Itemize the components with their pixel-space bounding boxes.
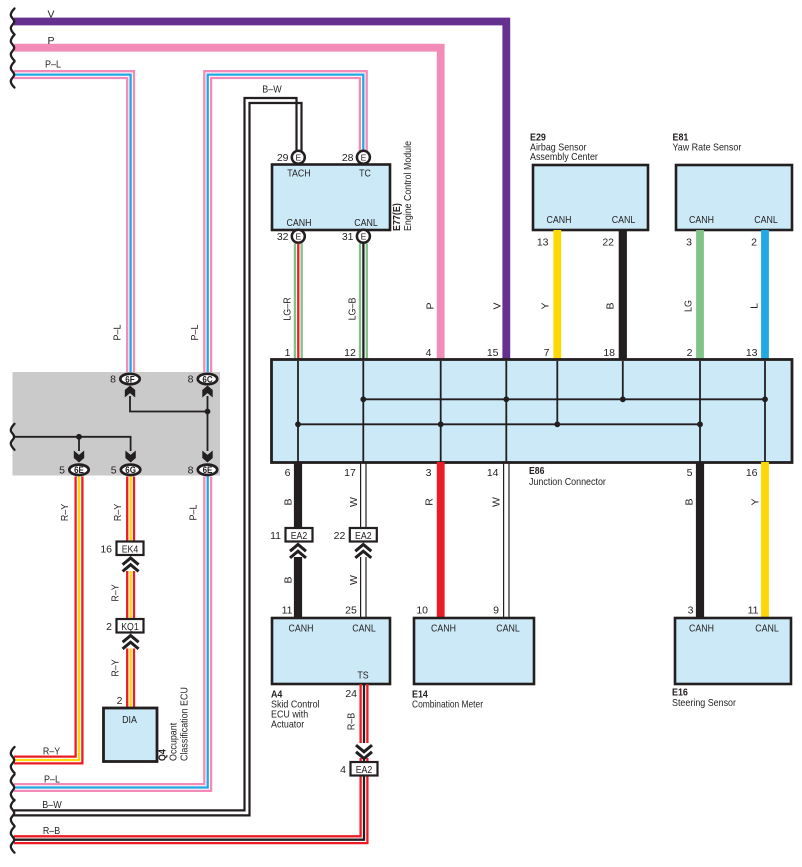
svg-text:6E: 6E	[74, 465, 84, 475]
junction connector E86	[272, 360, 793, 463]
svg-text:2: 2	[751, 237, 757, 249]
wire LG-B (E77 pin 31 to E86 pin 12)	[360, 244, 367, 362]
svg-text:R–Y: R–Y	[110, 659, 122, 676]
svg-text:22: 22	[602, 237, 614, 249]
connector EK4 pin 16	[123, 558, 139, 571]
wire P-L (from 6C up and over to E77 pin 28)	[204, 71, 366, 373]
terminal E77 pin 32	[292, 230, 305, 243]
connector EA2 pin 4	[356, 745, 372, 758]
svg-text:R–B: R–B	[346, 713, 358, 730]
svg-text:2: 2	[687, 347, 693, 359]
wire Y (E86 pin 16 to E16 CANL)	[761, 462, 769, 618]
wire R-Y (6E pin 5 to bottom-left)	[14, 477, 82, 764]
wire R-Y (6G to DIA via EK4 and KQ1)	[127, 477, 134, 709]
svg-text:B: B	[283, 498, 295, 505]
svg-text:16: 16	[746, 467, 758, 479]
connector 6G pin 5	[121, 465, 140, 475]
svg-text:R–Y: R–Y	[43, 746, 60, 758]
svg-text:9: 9	[493, 605, 499, 617]
svg-text:R–Y: R–Y	[59, 504, 71, 521]
svg-text:P–L: P–L	[189, 324, 201, 340]
shielded harness (gray area)	[13, 372, 221, 476]
svg-text:CANH: CANH	[689, 624, 714, 635]
svg-text:8: 8	[188, 374, 194, 386]
connector 6E pin 8	[198, 465, 217, 475]
wire L (E81 CANL to E86 pin 13)	[761, 230, 769, 361]
svg-text:B: B	[684, 498, 696, 505]
svg-text:6: 6	[285, 467, 291, 479]
ECU A4 Skid Control ECU with Actuator	[272, 618, 390, 684]
svg-text:CANL: CANL	[754, 215, 778, 226]
svg-text:5: 5	[687, 467, 693, 479]
svg-text:P–L: P–L	[188, 504, 200, 520]
wire P-L (left, to shield connector 6F)	[14, 71, 134, 373]
svg-text:R–B: R–B	[43, 825, 60, 837]
ECU E77 Engine Control Module	[272, 165, 390, 231]
svg-text:5: 5	[111, 464, 117, 476]
svg-text:P–L: P–L	[45, 58, 61, 70]
wire R-B continuation bracket	[11, 827, 15, 853]
svg-text:11: 11	[282, 605, 293, 617]
svg-text:12: 12	[344, 347, 356, 359]
svg-text:B: B	[283, 576, 295, 583]
svg-text:LG: LG	[683, 300, 695, 312]
svg-text:6F: 6F	[125, 374, 135, 384]
svg-text:CANH: CANH	[431, 624, 456, 635]
svg-text:LG–R: LG–R	[282, 297, 294, 321]
wire LG (E81 CANH to E86 pin 2)	[696, 230, 704, 361]
svg-text:10: 10	[416, 605, 428, 617]
svg-text:CANL: CANL	[755, 624, 779, 635]
svg-text:R–Y: R–Y	[112, 504, 124, 521]
connector KQ1 pin 2	[123, 636, 139, 649]
svg-text:CANL: CANL	[612, 215, 636, 226]
wire B (E86 pin 5 to E16 CANH)	[696, 462, 704, 618]
svg-text:R: R	[424, 498, 436, 506]
svg-text:Classification ECU: Classification ECU	[179, 687, 191, 761]
wire R-Y continuation bracket	[11, 747, 15, 773]
svg-text:P–L: P–L	[44, 773, 60, 785]
connector 6E pin 5	[69, 465, 88, 475]
wire R-B (A4 TS to bottom-left)	[14, 684, 367, 843]
svg-text:13: 13	[746, 347, 758, 359]
wire W (E86 pin 14 to E14 CANL)	[504, 462, 509, 618]
connector 6C pin 8	[198, 374, 217, 384]
svg-text:EA2: EA2	[291, 531, 308, 542]
svg-text:P–L: P–L	[111, 324, 123, 340]
svg-text:W: W	[348, 497, 360, 507]
svg-text:EK4: EK4	[122, 544, 139, 555]
svg-text:7: 7	[544, 347, 550, 359]
svg-text:4: 4	[340, 764, 346, 776]
wire LG-R (E77 pin 32 to E86 pin 1)	[295, 244, 302, 362]
svg-text:P: P	[47, 35, 54, 47]
wire P	[14, 48, 441, 361]
svg-text:5: 5	[59, 464, 65, 476]
svg-text:25: 25	[345, 605, 357, 617]
svg-text:CANH: CANH	[547, 215, 572, 226]
svg-text:13: 13	[537, 237, 549, 249]
svg-text:CANH: CANH	[287, 218, 312, 229]
svg-text:B–W: B–W	[262, 84, 281, 96]
svg-text:31: 31	[342, 231, 354, 243]
svg-text:CANH: CANH	[689, 215, 714, 226]
svg-text:TC: TC	[359, 169, 371, 180]
wire R (E86 pin 3 to E14 CANH)	[437, 462, 445, 618]
ECU Q4 Occupant Classification ECU (DIA)	[104, 708, 158, 762]
svg-text:24: 24	[345, 688, 357, 700]
svg-text:CANL: CANL	[352, 624, 376, 635]
svg-text:W: W	[491, 497, 503, 507]
svg-text:22: 22	[334, 530, 346, 542]
svg-text:16: 16	[100, 543, 112, 555]
svg-text:Junction Connector: Junction Connector	[529, 476, 606, 488]
svg-text:14: 14	[487, 467, 499, 479]
shield arrows	[125, 386, 135, 398]
svg-text:1: 1	[285, 347, 291, 359]
wire V continuation bracket	[11, 9, 15, 35]
svg-text:V: V	[492, 302, 504, 309]
connector EA2 pin 22	[355, 545, 371, 558]
svg-text:B: B	[605, 302, 617, 309]
svg-text:8: 8	[110, 374, 116, 386]
shield wiring from 6F/6C to 6E	[14, 396, 208, 451]
svg-text:32: 32	[277, 231, 289, 243]
svg-text:6C: 6C	[202, 374, 213, 384]
svg-text:CANL: CANL	[354, 218, 378, 229]
svg-text:TS: TS	[357, 671, 369, 682]
svg-text:29: 29	[277, 152, 289, 164]
wire B-W (E77 pin 29 up, over and down page to bottom-left)	[14, 98, 302, 815]
svg-text:EA2: EA2	[355, 531, 372, 542]
svg-text:R–Y: R–Y	[110, 584, 122, 601]
svg-text:TACH: TACH	[287, 169, 310, 180]
svg-text:4: 4	[426, 347, 432, 359]
connector EA2 pin 11	[290, 545, 306, 558]
connector 6F pin 8	[120, 374, 139, 384]
sensor E29 Airbag Sensor Assembly Center	[533, 165, 648, 230]
terminal E77 pin 31	[357, 230, 370, 243]
sensor E16 Steering Sensor	[675, 618, 791, 684]
svg-text:KQ1: KQ1	[121, 622, 139, 633]
meter E14 Combination Meter	[414, 618, 534, 684]
svg-text:11: 11	[270, 530, 281, 542]
svg-text:3: 3	[686, 237, 692, 249]
wire B (E86 pin 6 to A4 CANH)	[294, 462, 302, 542]
svg-text:Steering Sensor: Steering Sensor	[672, 697, 736, 709]
svg-text:CANH: CANH	[289, 624, 314, 635]
svg-text:B–W: B–W	[42, 799, 61, 811]
wire V	[14, 22, 506, 362]
svg-text:6G: 6G	[125, 465, 136, 475]
svg-text:V: V	[47, 9, 54, 21]
svg-text:Actuator: Actuator	[271, 719, 305, 731]
svg-text:11: 11	[748, 605, 759, 617]
svg-text:P: P	[425, 302, 437, 309]
svg-text:Y: Y	[750, 498, 762, 505]
svg-text:DIA: DIA	[122, 715, 137, 726]
wire W (E86 pin 17 to A4 CANL)	[361, 462, 366, 618]
svg-text:EA2: EA2	[356, 765, 373, 776]
terminal E77 pin 29	[292, 151, 305, 164]
svg-text:Engine Control Module: Engine Control Module	[402, 141, 414, 231]
wire P-L continuation bracket	[11, 775, 15, 801]
svg-text:Assembly Center: Assembly Center	[530, 151, 598, 163]
terminal E77 pin 28	[357, 151, 370, 164]
svg-text:2: 2	[106, 621, 112, 633]
svg-text:18: 18	[603, 347, 615, 359]
svg-text:Y: Y	[540, 302, 552, 309]
svg-text:Yaw Rate Sensor: Yaw Rate Sensor	[673, 142, 742, 154]
svg-text:3: 3	[426, 467, 432, 479]
svg-text:Combination Meter: Combination Meter	[412, 699, 483, 711]
shield continuation bracket	[11, 424, 15, 450]
svg-text:2: 2	[117, 695, 123, 707]
svg-text:LG–B: LG–B	[347, 298, 359, 321]
svg-text:W: W	[348, 575, 360, 585]
wire Y (E29 CANH to E86 pin 7)	[553, 230, 561, 361]
wire B (E29 CANL to E86 pin 18)	[619, 230, 627, 361]
svg-text:17: 17	[344, 467, 356, 479]
svg-text:6E: 6E	[203, 465, 213, 475]
E86 internal junction dots	[295, 396, 768, 427]
wire B-W continuation bracket	[11, 800, 15, 826]
svg-text:CANL: CANL	[496, 624, 520, 635]
wire P-L (6E pin 8 to bottom-left)	[14, 477, 211, 791]
svg-text:15: 15	[487, 347, 499, 359]
wire P continuation bracket	[11, 35, 15, 61]
svg-text:3: 3	[688, 605, 694, 617]
wire P-L continuation bracket	[11, 62, 15, 88]
sensor E81 Yaw Rate Sensor	[676, 165, 792, 230]
svg-text:28: 28	[342, 152, 354, 164]
svg-text:L: L	[749, 303, 761, 309]
E86 internal bus wiring	[298, 361, 765, 462]
svg-text:8: 8	[188, 464, 194, 476]
